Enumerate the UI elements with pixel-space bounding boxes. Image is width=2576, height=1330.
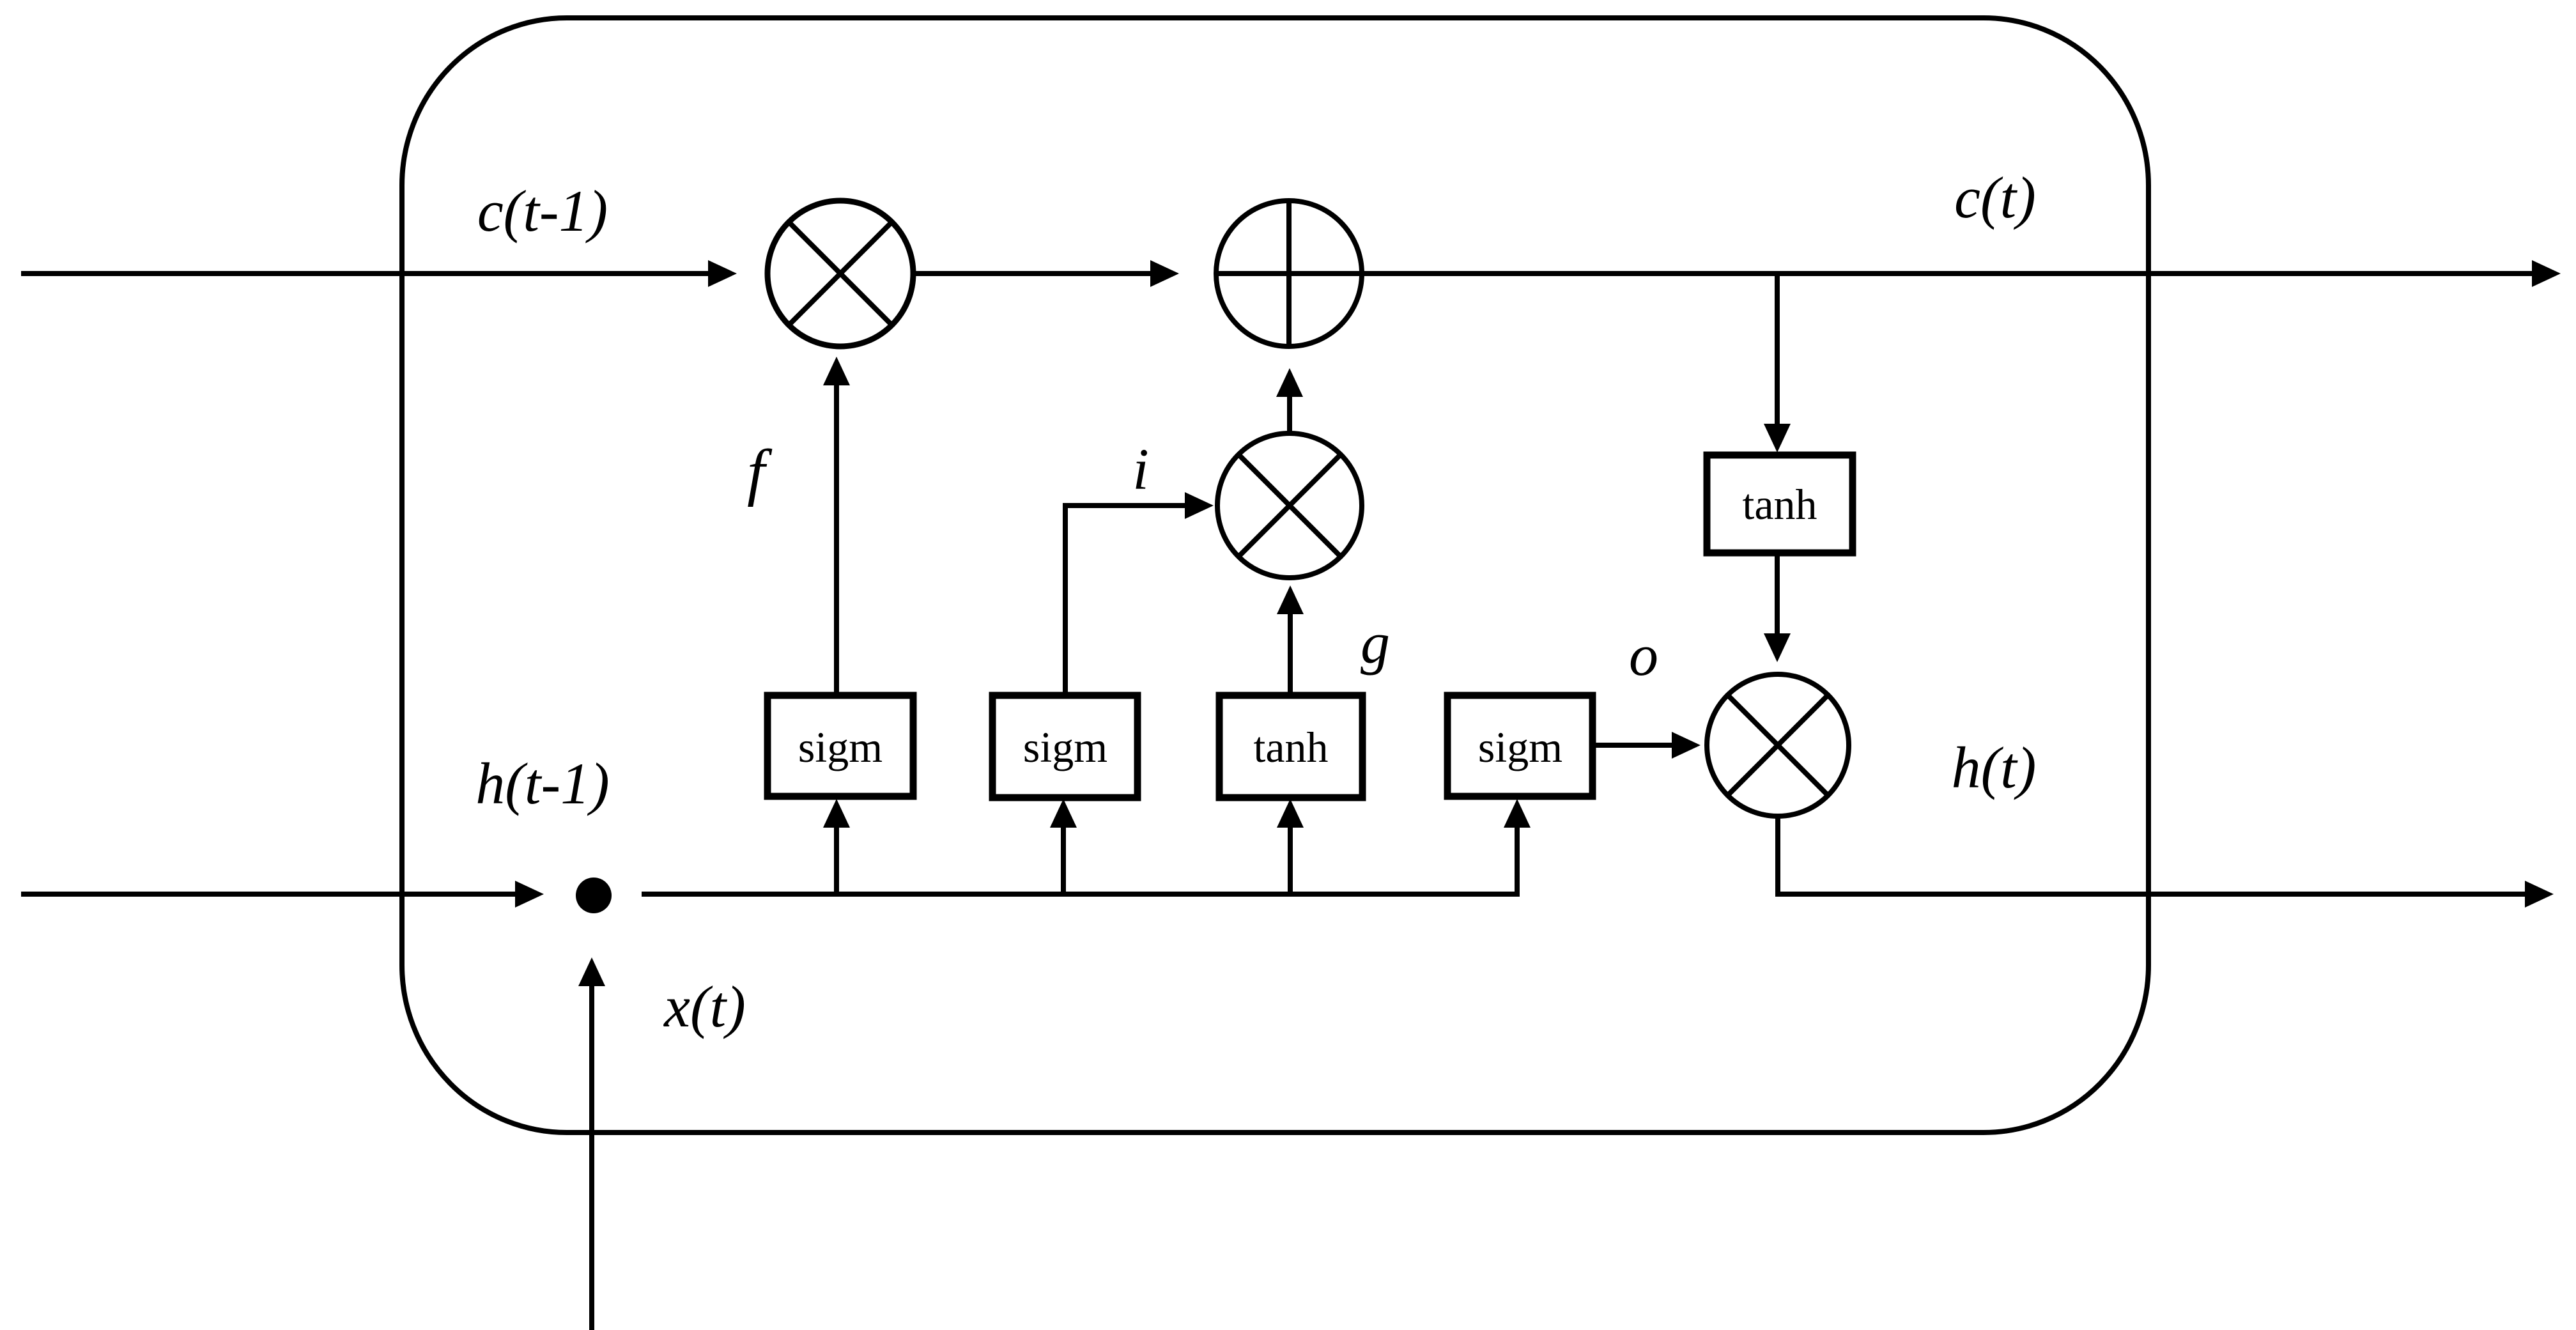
svg-text:h(t): h(t) [1952,735,2037,800]
svg-text:sigm: sigm [1478,723,1562,771]
svg-text:sigm: sigm [1023,723,1107,771]
svg-text:tanh: tanh [1742,480,1817,529]
svg-text:sigm: sigm [798,723,883,771]
svg-text:i: i [1132,437,1149,502]
svg-text:tanh: tanh [1253,723,1328,771]
svg-text:o: o [1629,622,1658,688]
svg-text:x(t): x(t) [663,974,746,1039]
svg-text:g: g [1361,610,1390,676]
svg-text:c(t-1): c(t-1) [477,178,608,244]
svg-text:h(t-1): h(t-1) [475,751,609,816]
svg-text:c(t): c(t) [1954,165,2036,230]
